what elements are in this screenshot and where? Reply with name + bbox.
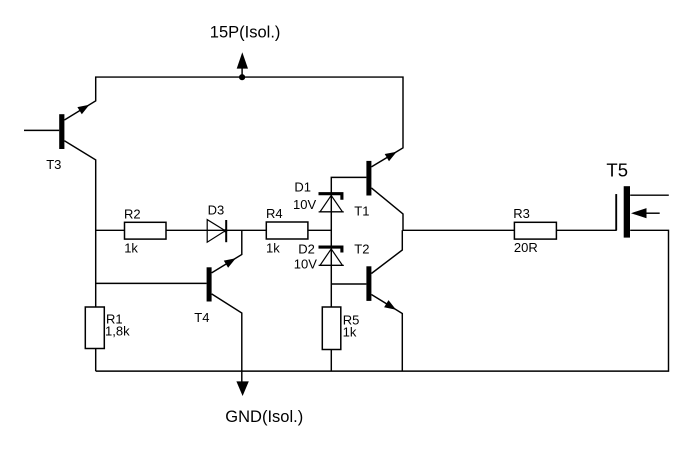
svg-text:10V: 10V bbox=[293, 197, 316, 212]
svg-text:10V: 10V bbox=[294, 257, 317, 272]
svg-text:20R: 20R bbox=[514, 240, 538, 255]
svg-text:T1: T1 bbox=[354, 203, 369, 218]
svg-text:T3: T3 bbox=[46, 157, 61, 172]
svg-text:R3: R3 bbox=[513, 206, 530, 221]
svg-text:15P(Isol.): 15P(Isol.) bbox=[210, 23, 281, 41]
svg-text:1k: 1k bbox=[343, 324, 357, 339]
svg-text:R2: R2 bbox=[124, 206, 141, 221]
svg-text:D1: D1 bbox=[294, 180, 311, 195]
svg-text:D3: D3 bbox=[208, 203, 225, 218]
svg-text:1,8k: 1,8k bbox=[105, 323, 130, 338]
svg-text:D2: D2 bbox=[298, 241, 315, 256]
svg-text:1k: 1k bbox=[124, 240, 138, 255]
svg-text:R4: R4 bbox=[266, 206, 283, 221]
svg-text:GND(Isol.): GND(Isol.) bbox=[225, 408, 303, 426]
svg-text:T2: T2 bbox=[354, 241, 369, 256]
svg-text:T5: T5 bbox=[606, 160, 628, 181]
svg-text:1k: 1k bbox=[266, 240, 280, 255]
svg-text:T4: T4 bbox=[194, 310, 209, 325]
